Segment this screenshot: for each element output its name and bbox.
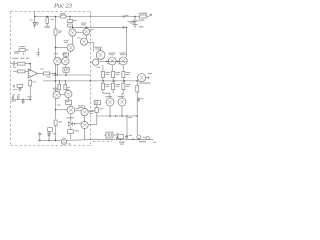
svg-text:Рис 23: Рис 23 — [53, 2, 72, 9]
